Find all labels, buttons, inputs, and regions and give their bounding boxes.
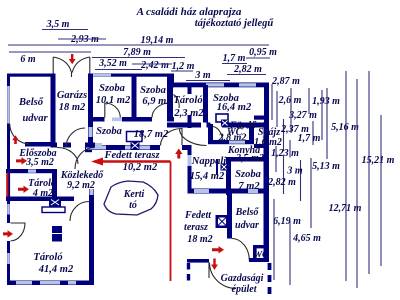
box with X terasz 18 — [216, 215, 229, 228]
svg-text:A családi ház alaprajza: A családi ház alaprajza — [136, 6, 242, 18]
svg-text:tó: tó — [129, 200, 137, 211]
svg-text:2,8 m2: 2,8 m2 — [218, 133, 247, 144]
door arc Gazdasagi — [210, 263, 237, 289]
door in left wall of Tarolo 41,4 — [11, 223, 26, 241]
bottom wall left of Gazdasagi door — [187, 259, 209, 263]
right dimension line 6,19 — [273, 199, 275, 280]
svg-text:6,9 m2: 6,9 m2 — [142, 96, 172, 107]
red arrow down Gazdasagi — [211, 259, 218, 271]
wall same divider lower part — [88, 121, 93, 148]
window Szoba 7 bottom — [248, 189, 258, 193]
svg-text:5,13 m: 5,13 m — [312, 161, 340, 172]
WC box top wall — [253, 245, 269, 248]
furniture rect Szoba 16,4 — [216, 114, 228, 122]
svg-text:16,4 m2: 16,4 m2 — [217, 102, 252, 113]
garage door leaf right — [72, 57, 90, 73]
window top right 2 — [239, 83, 256, 86]
garage door leaf left — [53, 57, 71, 77]
door arcs Kozlekedo — [57, 148, 78, 165]
svg-text:Belső: Belső — [235, 207, 260, 218]
right dimension line extra — [321, 90, 323, 140]
right dimension line 2,82 — [283, 155, 285, 194]
X of Nappali box — [222, 165, 227, 170]
left outer wall — [7, 74, 10, 224]
dimension line 7,89 m — [92, 57, 185, 59]
window bottom wall 1 — [16, 281, 32, 285]
red arrow up terasz — [175, 149, 182, 159]
svg-text:18 m2: 18 m2 — [59, 102, 86, 113]
stove in Tarolo 41,4 — [52, 226, 62, 242]
right dimension line 3 m — [300, 160, 302, 201]
wall Szoba 16,4 right / outer — [264, 83, 269, 123]
outer right wall lower section — [264, 122, 270, 262]
svg-text:2,82 m: 2,82 m — [267, 177, 296, 188]
box with X Nappali — [221, 164, 228, 171]
window left wall Belso udvar — [7, 86, 10, 124]
long line 4 — [380, 115, 382, 266]
Szoba 7 left wall — [226, 157, 231, 195]
svg-text:Fedett: Fedett — [184, 210, 212, 221]
dimension line 3,5 m — [42, 29, 88, 31]
svg-text:Belső: Belső — [18, 97, 44, 108]
wall small piece right — [170, 117, 174, 122]
svg-text:15,21 m: 15,21 m — [362, 155, 395, 166]
wall below continues to right wall — [222, 123, 269, 128]
dashed line Gazdasagi right — [268, 263, 272, 294]
wall Tarolo 2,3 / Szoba 16,4 divider — [203, 85, 208, 123]
window top right 1 — [206, 83, 224, 86]
wall stub below top-right wall — [188, 86, 192, 94]
red arrow right Belso lower — [212, 246, 224, 253]
red line on Tarolo 4 wall — [6, 173, 8, 197]
Tarolo 4 bottom wall — [6, 197, 74, 202]
svg-text:19,14 m: 19,14 m — [141, 35, 174, 46]
opening in Eloszoba bottom wall — [28, 169, 36, 172]
svg-text:4,65 m: 4,65 m — [292, 233, 321, 244]
svg-text:1,23 m: 1,23 m — [271, 148, 299, 159]
red arrow long left — [91, 158, 171, 166]
svg-text:1,7 m: 1,7 m — [298, 133, 321, 144]
dimension line 3 m top — [186, 80, 230, 82]
svg-text:Kerti: Kerti — [123, 189, 145, 200]
svg-text:6,19 m: 6,19 m — [273, 216, 301, 227]
long line 2 — [356, 79, 358, 288]
door arc Kozlekedo 2 — [75, 148, 95, 170]
svg-text:Tároló: Tároló — [33, 252, 62, 263]
svg-text:7,89 m: 7,89 m — [123, 47, 151, 58]
svg-text:1,2 m: 1,2 m — [172, 61, 195, 72]
window piece — [112, 118, 122, 122]
red arrow right Tarolo 41,4 — [3, 230, 13, 237]
Furdo bottom wall — [208, 140, 254, 144]
long line 3 — [368, 71, 370, 274]
svg-text:3 m: 3 m — [286, 166, 303, 177]
svg-text:Garázs: Garázs — [57, 90, 87, 101]
door arc to terasz — [161, 129, 183, 146]
wall Garazs / Szoba 10,1 divider — [88, 74, 93, 122]
dashed line Gazdasagi left — [187, 263, 190, 282]
wall below Szoba 10,1 and 6,9 — [88, 117, 105, 122]
red arrow right Eloszoba — [16, 157, 27, 164]
right dimension line 5,13 — [310, 158, 312, 228]
svg-text:2,6 m: 2,6 m — [278, 95, 302, 106]
window 18,7 bottom 2 — [125, 146, 150, 150]
svg-text:udvar: udvar — [235, 220, 259, 231]
right dimension line short extra — [275, 146, 277, 172]
Nappali left wall middle piece — [188, 145, 192, 155]
wall step corner — [167, 74, 174, 88]
svg-text:Tároló: Tároló — [173, 95, 202, 106]
svg-text:Fedett terasz: Fedett terasz — [103, 150, 160, 161]
Kerti to pond — [104, 181, 158, 215]
svg-text:Gazdasági: Gazdasági — [221, 273, 264, 284]
svg-text:10,2 m2: 10,2 m2 — [123, 162, 158, 173]
right dimension line 2,6 — [276, 91, 278, 127]
right dimension line 4,65 — [289, 221, 291, 285]
Kozlekedo left wall — [52, 169, 57, 201]
wall Szoba 10,1 / 6,9 divider — [132, 74, 137, 118]
svg-text:9,2 m2: 9,2 m2 — [67, 180, 95, 191]
svg-text:18 m2: 18 m2 — [187, 234, 212, 245]
X of terasz box — [218, 218, 226, 226]
svg-text:41,4 m2: 41,4 m2 — [38, 264, 74, 275]
svg-text:terasz: terasz — [184, 222, 208, 233]
wall below Tarolo 2,3 and Szoba 16,4 — [167, 123, 201, 128]
right dimension line 2,87 — [271, 84, 273, 120]
door arc into Tarolo 2,3 — [174, 95, 180, 109]
right dimension line 3,27 — [290, 88, 292, 133]
window Furdo bottom — [229, 141, 245, 144]
red path vertical terasz — [170, 162, 172, 282]
window left wall lower — [7, 253, 10, 264]
window left wall above door — [7, 204, 10, 215]
door arc Szoba 6,9 — [152, 103, 170, 118]
right dimension line 1,7 — [312, 121, 314, 145]
Nappali left wall lower piece — [188, 166, 192, 189]
window right of garazs wall — [95, 143, 102, 147]
Szoba 18,7 bottom wall left part — [85, 145, 160, 150]
WC box left wall — [253, 245, 257, 262]
X of 18,7 box — [132, 143, 139, 149]
wall jog Spajz top — [254, 116, 269, 120]
svg-text:épület: épület — [232, 284, 258, 295]
svg-text:7 m2: 7 m2 — [238, 181, 260, 192]
red arrow garage — [69, 54, 76, 64]
svg-text:3 m: 3 m — [194, 70, 211, 81]
wall piece right of terasz door — [182, 145, 188, 150]
Eloszoba bottom wall — [6, 169, 56, 173]
wall below gap piece — [207, 123, 211, 128]
bottom wall right part with WC — [249, 258, 269, 262]
garage door jamb right — [89, 57, 91, 74]
Garazs bottom wall right piece — [85, 143, 95, 148]
bottom outer wall — [7, 281, 94, 286]
box with X Furdo — [221, 120, 229, 127]
door jamb Gazdasagi — [208, 263, 210, 278]
dimension line 0,95 m — [246, 57, 270, 59]
door arc Belso udvar lower — [232, 239, 250, 261]
svg-text:1,7 m: 1,7 m — [223, 53, 246, 64]
dimension line 3,52 m — [95, 69, 142, 71]
right dimension line 2,37 — [283, 119, 285, 151]
Nappali left wall window — [188, 155, 192, 166]
thin wall stub Konyha — [216, 159, 218, 175]
window in divider lower — [89, 127, 93, 137]
door arc Garazs — [66, 128, 85, 148]
left outer wall lower — [7, 241, 10, 285]
svg-text:tájékoztató jellegű: tájékoztató jellegű — [195, 18, 275, 29]
Spajz bottom wall — [254, 144, 264, 148]
red arrow right Tarolo 4 — [18, 186, 29, 193]
door arc Szoba 10,1 — [105, 103, 121, 118]
X of box — [51, 200, 59, 206]
Szoba 7 top wall — [226, 157, 268, 162]
svg-text:3,5 m2: 3,5 m2 — [25, 157, 54, 168]
wall top-left outer right of garage door — [90, 74, 174, 77]
svg-text:Szoba: Szoba — [140, 85, 166, 96]
window Nappali bottom — [194, 189, 209, 193]
svg-text:WC: WC — [254, 251, 269, 261]
stove divider — [52, 233, 62, 235]
Eloszoba left wall lower — [7, 169, 11, 197]
Nappali left wall upper piece — [188, 115, 192, 128]
svg-text:3,5 m: 3,5 m — [46, 19, 70, 30]
box with X Szoba 18,7 — [131, 142, 140, 150]
svg-text:2,3 m2: 2,3 m2 — [173, 108, 204, 119]
door arc Eloszoba — [10, 124, 30, 144]
Furdo Spajz divider — [249, 124, 254, 142]
wall top-left outer — [7, 74, 53, 77]
strike line 2,93 m — [58, 38, 106, 40]
svg-text:2,42 m: 2,42 m — [140, 60, 169, 71]
strike line 2,42 m — [132, 63, 172, 65]
wall Belso udvar / Garazs divider — [51, 74, 56, 148]
svg-text:3,27 m: 3,27 m — [288, 110, 317, 121]
wall right of Tarolo 41,4 — [89, 189, 94, 285]
door arc into Furdo — [213, 127, 223, 143]
inner of terasz box — [218, 218, 226, 226]
svg-text:1,93 m: 1,93 m — [312, 96, 340, 107]
svg-text:2,82 m: 2,82 m — [233, 64, 262, 75]
dimension line 1,2 m — [171, 70, 193, 72]
window bottom wall 3 — [68, 281, 76, 285]
Garazs bottom wall — [51, 143, 58, 148]
bottom wall Nappali + Szoba 7 — [188, 189, 269, 194]
dimension line 1,7 m top — [222, 63, 247, 65]
window in top wall — [93, 74, 111, 77]
wall below continues — [122, 117, 152, 122]
svg-text:Szoba: Szoba — [96, 126, 122, 137]
svg-text:12,71 m: 12,71 m — [329, 203, 362, 214]
svg-text:udvar: udvar — [22, 113, 48, 124]
svg-text:4 m2: 4 m2 — [32, 188, 53, 199]
dimension line 19,14 m — [8, 44, 269, 46]
wall Szoba 6,9 right — [167, 74, 173, 122]
svg-text:3,52 m: 3,52 m — [98, 58, 127, 69]
svg-text:Szoba: Szoba — [235, 169, 261, 180]
right dimension line 1,93 — [308, 88, 310, 114]
right dimension line 5,16 — [326, 88, 328, 159]
door arc Kozlekedo to Tarolo 41,4 — [70, 202, 89, 222]
wall top right section — [173, 83, 269, 88]
Furdo left wall — [208, 124, 213, 144]
X of Furdo box — [222, 121, 228, 126]
box furniture on wall — [49, 198, 61, 208]
open rect furniture below — [42, 207, 65, 213]
dimension line 6 m — [9, 51, 91, 53]
svg-text:6 m: 6 m — [20, 54, 36, 65]
terasz wall / Belso udvar lower divider — [227, 194, 232, 239]
window bottom wall 2 — [40, 281, 60, 285]
window 18,7 bottom 1 — [86, 146, 106, 150]
svg-text:Szoba: Szoba — [99, 83, 125, 94]
svg-text:15,4 m2: 15,4 m2 — [190, 171, 225, 182]
dimension line 2,82 m top — [227, 74, 266, 76]
svg-text:2,87 m: 2,87 m — [271, 76, 300, 87]
long line 1 — [345, 71, 347, 281]
svg-text:0,95 m: 0,95 m — [249, 47, 277, 58]
svg-text:10,1 m2: 10,1 m2 — [96, 95, 131, 106]
door arc into Nappali — [180, 129, 207, 146]
garage door jamb left — [52, 57, 54, 74]
red arrow up Belso udvar — [12, 135, 19, 144]
wall Belso udvar / Eloszoba — [25, 142, 52, 147]
svg-text:3,5 m2: 3,5 m2 — [235, 153, 264, 164]
right dimension line 1,23 — [289, 140, 291, 158]
furniture rect Szoba 18,7 — [127, 132, 143, 142]
svg-text:18,7 m2: 18,7 m2 — [134, 129, 169, 140]
svg-text:Nappali: Nappali — [191, 156, 227, 167]
svg-text:5,16 m: 5,16 m — [331, 122, 359, 133]
window top of that wall — [90, 189, 94, 195]
